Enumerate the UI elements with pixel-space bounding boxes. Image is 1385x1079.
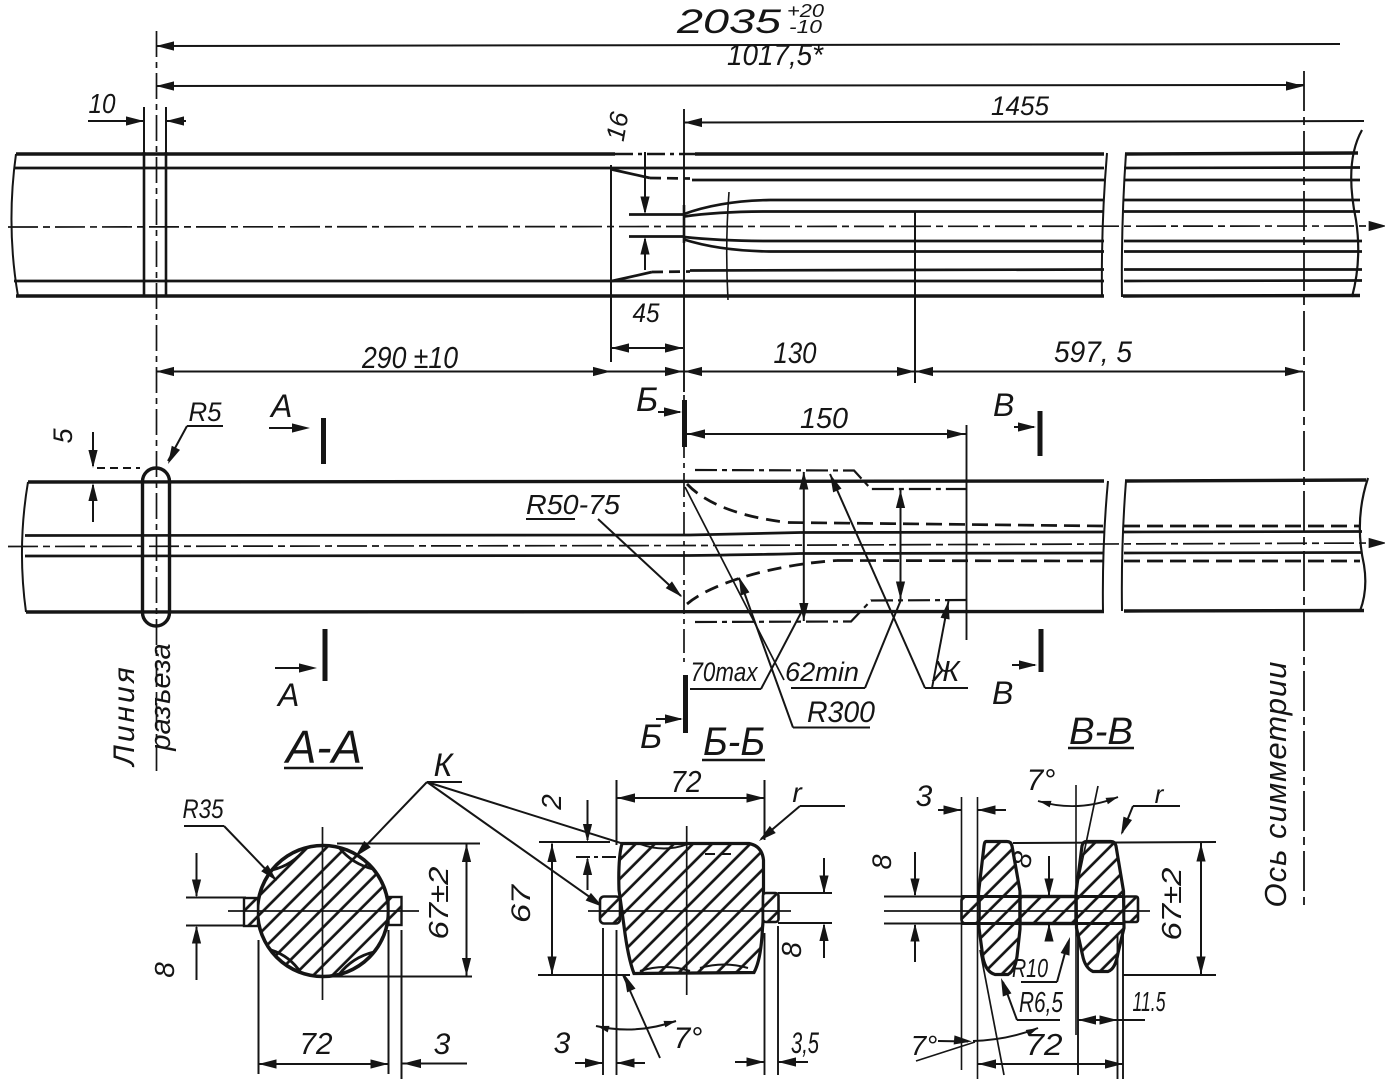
- svg-text:290 ±10: 290 ±10: [361, 340, 458, 375]
- svg-text:3: 3: [554, 1027, 571, 1060]
- svg-text:67: 67: [506, 884, 536, 923]
- svg-text:8: 8: [776, 942, 807, 958]
- svg-text:597, 5: 597, 5: [1054, 336, 1132, 369]
- svg-text:72: 72: [671, 764, 702, 799]
- svg-text:3,5: 3,5: [791, 1027, 819, 1060]
- svg-text:Ось симметрии: Ось симметрии: [1258, 661, 1293, 908]
- svg-text:разъеза: разъеза: [145, 643, 177, 751]
- svg-text:2: 2: [536, 794, 567, 811]
- svg-text:45: 45: [633, 298, 661, 328]
- svg-text:150: 150: [800, 403, 848, 435]
- svg-text:3: 3: [434, 1028, 451, 1061]
- svg-text:Б: Б: [640, 718, 662, 756]
- svg-text:72: 72: [300, 1026, 333, 1061]
- svg-text:70max: 70max: [691, 657, 759, 687]
- svg-text:В: В: [992, 675, 1013, 711]
- svg-text:67±2: 67±2: [1156, 867, 1187, 940]
- svg-text:2035: 2035: [676, 3, 781, 41]
- svg-text:1455: 1455: [991, 91, 1050, 121]
- svg-text:5: 5: [48, 428, 78, 444]
- svg-text:R35: R35: [183, 794, 225, 824]
- svg-text:8: 8: [149, 962, 180, 978]
- svg-text:1017,5*: 1017,5*: [727, 39, 824, 72]
- svg-text:8: 8: [867, 854, 897, 869]
- svg-text:130: 130: [774, 337, 817, 370]
- svg-text:7°: 7°: [1027, 764, 1056, 797]
- svg-text:В: В: [993, 387, 1014, 423]
- svg-text:Ж: Ж: [931, 656, 962, 688]
- svg-text:67±2: 67±2: [423, 866, 454, 939]
- svg-text:62min: 62min: [785, 657, 859, 687]
- svg-text:Б: Б: [636, 381, 658, 419]
- svg-text:R6,5: R6,5: [1019, 987, 1064, 1019]
- svg-text:11.5: 11.5: [1133, 986, 1166, 1017]
- svg-text:R300: R300: [807, 696, 875, 729]
- svg-text:R50-75: R50-75: [526, 489, 620, 520]
- svg-text:А-А: А-А: [283, 721, 362, 773]
- svg-text:А: А: [276, 677, 299, 713]
- svg-text:R5: R5: [189, 397, 223, 427]
- svg-text:7°: 7°: [911, 1030, 938, 1061]
- svg-text:7°: 7°: [674, 1022, 703, 1055]
- svg-text:16: 16: [600, 109, 635, 143]
- svg-text:R10: R10: [1012, 953, 1048, 983]
- svg-text:А: А: [269, 388, 292, 424]
- svg-text:К: К: [434, 747, 455, 783]
- svg-text:3: 3: [916, 780, 933, 813]
- svg-text:72: 72: [1026, 1027, 1063, 1062]
- svg-text:Линия: Линия: [108, 664, 141, 767]
- svg-text:-10: -10: [789, 17, 822, 37]
- svg-text:r: r: [1155, 779, 1165, 809]
- svg-text:10: 10: [89, 88, 116, 119]
- svg-text:Б-Б: Б-Б: [703, 720, 765, 764]
